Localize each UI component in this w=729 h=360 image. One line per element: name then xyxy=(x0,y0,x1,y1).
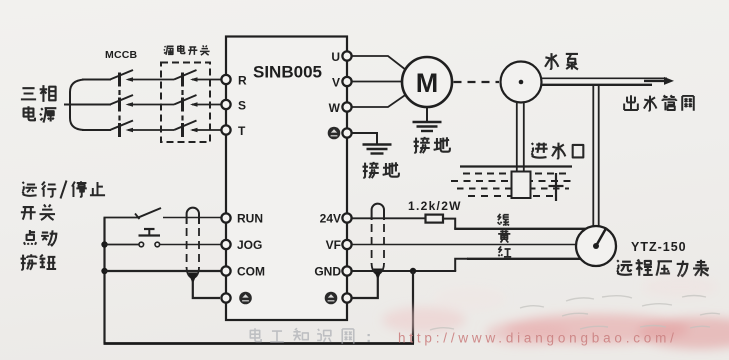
junction at COM branch xyxy=(101,268,107,274)
water hatching row 3 xyxy=(457,188,569,190)
svg-text:U: U xyxy=(331,50,340,64)
label 按钮 xyxy=(20,254,56,270)
terminal V xyxy=(332,76,352,90)
switch S1 run/stop xyxy=(135,208,161,219)
wire R MCCB-to-leakage xyxy=(128,79,174,81)
label 红 (red) xyxy=(498,246,511,256)
water hatching row 2 xyxy=(451,180,573,182)
left control bus vertical xyxy=(103,218,105,344)
svg-text:COM: COM xyxy=(237,265,265,279)
shaft coupling (dashed) motor to pump xyxy=(454,81,500,83)
svg-text:SINB005: SINB005 xyxy=(253,63,322,82)
junction at JOG branch xyxy=(101,241,107,247)
wire phase S to MCCB xyxy=(64,104,111,106)
foot valve / strainer xyxy=(512,172,531,199)
svg-text:YTZ-150: YTZ-150 xyxy=(631,240,687,254)
wire red lead riser xyxy=(455,259,468,271)
leakage breaker pole S xyxy=(174,95,198,112)
label 出水管网 xyxy=(624,95,694,110)
svg-text:VF: VF xyxy=(326,238,341,252)
wire S MCCB-to-leakage xyxy=(128,104,174,106)
wire phase R to MCCB xyxy=(82,79,111,81)
level probe in well xyxy=(549,173,564,201)
wire: supply bracket xyxy=(70,80,84,131)
label 点动 xyxy=(24,230,57,246)
terminal W xyxy=(329,101,352,115)
outlet pipe lower line xyxy=(541,84,652,86)
junction GND / bus drop xyxy=(410,268,416,274)
shielded cable left xyxy=(187,208,199,284)
svg-text::: : xyxy=(366,329,371,346)
terminal PE lower-left with earth mark xyxy=(221,292,251,305)
svg-text:GND: GND xyxy=(314,265,341,279)
motor M xyxy=(402,57,452,107)
svg-text:1.2k/2W: 1.2k/2W xyxy=(408,199,462,213)
label 接地 (motor earth) xyxy=(413,137,449,153)
inverter U1 SINB005 enclosure xyxy=(226,37,347,321)
pink watermark smudges xyxy=(382,276,729,349)
leakage breaker dashed enclosure xyxy=(161,63,210,143)
wire bus drop to bottom rail xyxy=(412,271,414,344)
bottom common rail xyxy=(104,342,415,345)
breaker MCCB pole R xyxy=(110,70,133,87)
outlet flow arrow xyxy=(644,77,674,85)
watermark 电工知识网: xyxy=(250,328,371,346)
label 水泵 xyxy=(545,53,578,69)
svg-text:T: T xyxy=(238,124,246,138)
gauge standpipe (double line) xyxy=(593,85,598,227)
label 绿 (green) xyxy=(498,214,509,226)
svg-text:JOG: JOG xyxy=(237,238,262,252)
wire bus to JOG button xyxy=(105,244,139,246)
wire T to terminal T xyxy=(192,129,222,131)
wire T MCCB-to-leakage xyxy=(128,129,174,131)
terminal GND xyxy=(314,265,351,279)
breaker MCCB pole S xyxy=(110,95,133,112)
water surface line xyxy=(460,165,572,167)
svg-text:http://www.diangongbao.com/: http://www.diangongbao.com/ xyxy=(398,331,678,346)
svg-text:V: V xyxy=(332,76,340,90)
label 运行/停止 xyxy=(22,181,105,199)
wire PE upper to ground xyxy=(352,133,377,144)
wire S to terminal S xyxy=(192,104,222,106)
svg-text:R: R xyxy=(238,74,247,88)
terminal PE lower-right with earth mark xyxy=(325,292,352,305)
terminal JOG xyxy=(221,238,262,252)
wire VF yellow lead to gauge xyxy=(352,244,578,246)
breaker linkage dashes MCCB xyxy=(118,90,120,121)
pushbutton SB1 jog xyxy=(139,229,161,247)
wire right shield drain to PE xyxy=(352,277,378,298)
water hatching row 4 xyxy=(468,195,556,197)
wire R to terminal R xyxy=(192,79,222,81)
wire W to motor xyxy=(352,95,406,108)
pencil scribbles xyxy=(430,296,720,331)
wire red lead to gauge xyxy=(467,258,583,260)
wire left shield drain to PE xyxy=(193,281,220,298)
wire button to JOG terminal xyxy=(160,244,222,246)
wire U to motor xyxy=(352,56,406,70)
breaker linkage dashes leakage xyxy=(181,90,183,121)
wire 24V to resistor xyxy=(352,217,426,219)
leakage breaker pole R xyxy=(174,70,198,87)
label 进水口 xyxy=(531,143,583,159)
label 远程压力表 xyxy=(617,260,709,277)
wire GND to junction xyxy=(352,270,457,272)
wire bus to RUN switch xyxy=(104,217,139,219)
label 三相电源 (three-phase supply) xyxy=(21,85,56,122)
label 接地 (inverter earth) xyxy=(362,162,398,178)
svg-text:S: S xyxy=(238,99,246,113)
svg-text:RUN: RUN xyxy=(237,212,263,226)
terminal R xyxy=(221,74,247,88)
wire phase T to MCCB xyxy=(82,129,111,131)
svg-text:W: W xyxy=(329,101,341,115)
motor ground xyxy=(413,108,442,132)
terminal U xyxy=(331,50,351,64)
resistor R1 1.2k/2W xyxy=(426,215,444,223)
svg-text:MCCB: MCCB xyxy=(105,49,138,61)
terminal RUN xyxy=(221,212,263,226)
ground (inverter PE) xyxy=(363,145,392,154)
label 开关 xyxy=(21,204,55,220)
wire V to motor xyxy=(352,81,403,83)
wire switch to RUN terminal xyxy=(163,217,222,219)
svg-text:M: M xyxy=(416,68,439,98)
pressure gauge PG YTZ-150 xyxy=(576,226,616,266)
breaker MCCB pole T xyxy=(110,121,133,138)
terminal COM xyxy=(221,265,265,279)
water hatching row 1 xyxy=(463,173,568,175)
terminal 24V xyxy=(320,212,352,226)
suction pipe from pump (double line) xyxy=(517,102,524,172)
label 漏电开关 (leakage breaker) xyxy=(164,45,210,55)
svg-text:24V: 24V xyxy=(320,212,341,226)
wire green lead to gauge xyxy=(454,228,587,230)
pump P1 xyxy=(501,62,542,103)
shielded cable right xyxy=(372,204,384,280)
terminal VF xyxy=(326,238,352,252)
leakage breaker pole T xyxy=(174,121,198,138)
terminal PE upper with earth mark xyxy=(328,127,352,140)
label 黄 (yellow) xyxy=(498,230,510,242)
terminal S xyxy=(221,99,246,113)
terminal T xyxy=(221,124,246,138)
wire resistor to green lead xyxy=(443,219,455,229)
outlet pipe upper line xyxy=(541,77,667,79)
wire bus to COM terminal xyxy=(105,270,222,272)
